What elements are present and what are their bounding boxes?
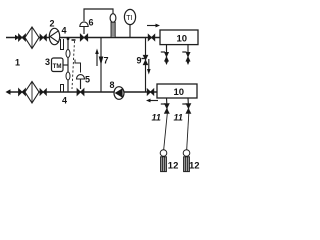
valve V4 before bottom heater bbox=[147, 89, 154, 95]
pump P8 bbox=[114, 87, 124, 100]
valve V1 top-left bbox=[19, 34, 26, 41]
tick bbox=[182, 51, 186, 53]
valve on branch C (vertical) bbox=[143, 55, 148, 65]
signal line from actuator 6 to sensor bbox=[84, 9, 113, 21]
svg-text:9: 9 bbox=[137, 56, 142, 66]
tick bbox=[161, 103, 165, 105]
node marker on riser B bbox=[99, 57, 104, 66]
wire branch riser A (to TM bypass) bbox=[67, 38, 69, 93]
sensor pocket pair 4 (below top line) bbox=[61, 39, 64, 50]
svg-text:7: 7 bbox=[104, 56, 109, 66]
tick on branch C bbox=[142, 58, 145, 60]
svg-text:2: 2 bbox=[50, 19, 55, 29]
svg-text:12: 12 bbox=[168, 160, 179, 171]
drop line 2 under bottom heater bbox=[187, 98, 190, 113]
tick bbox=[161, 51, 165, 53]
valve V6 bottom-left bbox=[19, 89, 26, 96]
valve V2 bbox=[40, 34, 46, 40]
temperature sensor bulb bbox=[110, 14, 116, 23]
flow arrow outlet bottom (points left) bbox=[6, 89, 11, 95]
control valve 6 actuator dome bbox=[80, 22, 88, 27]
control valve 6 body bbox=[80, 34, 87, 41]
control valve 6 stem bbox=[83, 27, 85, 35]
pump P2 bbox=[49, 28, 59, 44]
wire top supply main line bbox=[6, 37, 160, 39]
valve V5 (regulator body on return line) bbox=[77, 89, 84, 96]
flow arrow inlet top bbox=[15, 35, 20, 41]
heater box 10 (bottom) bbox=[157, 84, 197, 98]
svg-text:10: 10 bbox=[177, 33, 188, 44]
regulator actuator 5 (dome) bbox=[77, 75, 85, 79]
valve (vertical) bbox=[165, 52, 169, 61]
tap column (hatched) bbox=[161, 157, 167, 172]
valve (vertical) bbox=[186, 104, 191, 114]
filter F2 (dirt trap diamond, return line) bbox=[25, 82, 39, 104]
impulse line tick bbox=[72, 39, 76, 41]
sensor pocket pair 4 (above return line) bbox=[61, 85, 64, 92]
instrument box TM (item 3) bbox=[52, 58, 64, 72]
svg-text:12: 12 bbox=[189, 160, 200, 171]
thermometer TI bbox=[124, 9, 135, 24]
cock O1 on branch A bbox=[66, 50, 70, 58]
svg-text:10: 10 bbox=[174, 87, 185, 98]
svg-text:TI: TI bbox=[126, 15, 132, 22]
return flow arrow (left) bbox=[150, 100, 158, 102]
flow arrow into heater 10 (top) bbox=[147, 25, 156, 27]
svg-text:5: 5 bbox=[85, 75, 90, 85]
wire to tap 12 bbox=[164, 113, 168, 149]
wire TM stub bbox=[63, 64, 68, 66]
wire bottom return main line bbox=[9, 91, 157, 93]
wire riser B (heating system connection 7) bbox=[100, 38, 102, 93]
drop line 1 under top heater bbox=[166, 45, 168, 62]
wire branch C (bypass 9) bbox=[145, 38, 147, 93]
tap column (hatched) bbox=[184, 157, 190, 172]
down flow arrow beside branch C bbox=[148, 59, 150, 70]
cock O2 on branch A bbox=[66, 72, 70, 80]
valve V3 before top heater bbox=[148, 34, 155, 40]
impulse bracket to regulator 5 bbox=[75, 60, 81, 73]
svg-text:4: 4 bbox=[62, 96, 67, 106]
water meter circle (tap 1) bbox=[160, 150, 167, 157]
valve (vertical) bbox=[186, 52, 190, 61]
drop line 1 under bottom heater bbox=[166, 98, 169, 113]
junction node (branch A / top line) bbox=[67, 37, 70, 40]
up arrow (flow to heating system) bbox=[96, 53, 98, 66]
tick bbox=[182, 103, 186, 105]
svg-text:11: 11 bbox=[174, 113, 183, 123]
filter F1 (dirt trap diamond, top line) bbox=[25, 27, 39, 49]
wire to tap 12 bbox=[187, 113, 189, 149]
heater box 10 (top) bbox=[160, 30, 198, 45]
svg-text:3: 3 bbox=[45, 57, 50, 67]
svg-text:1: 1 bbox=[15, 58, 20, 68]
svg-text:8: 8 bbox=[110, 80, 115, 90]
outlet arrowhead bbox=[187, 62, 190, 66]
valve (vertical) bbox=[164, 104, 169, 114]
impulse dashed line bbox=[72, 41, 75, 89]
valve V7 bbox=[40, 89, 46, 95]
sensor well (shaded) bbox=[111, 22, 115, 37]
outlet arrowhead bbox=[165, 62, 168, 66]
wire TI stem bbox=[129, 25, 131, 38]
drop line 2 under top heater bbox=[187, 45, 189, 62]
svg-text:TM: TM bbox=[53, 63, 62, 70]
svg-text:6: 6 bbox=[89, 18, 94, 28]
svg-text:4: 4 bbox=[62, 26, 67, 36]
water meter circle (tap 2) bbox=[183, 150, 190, 157]
svg-text:11: 11 bbox=[152, 113, 161, 123]
